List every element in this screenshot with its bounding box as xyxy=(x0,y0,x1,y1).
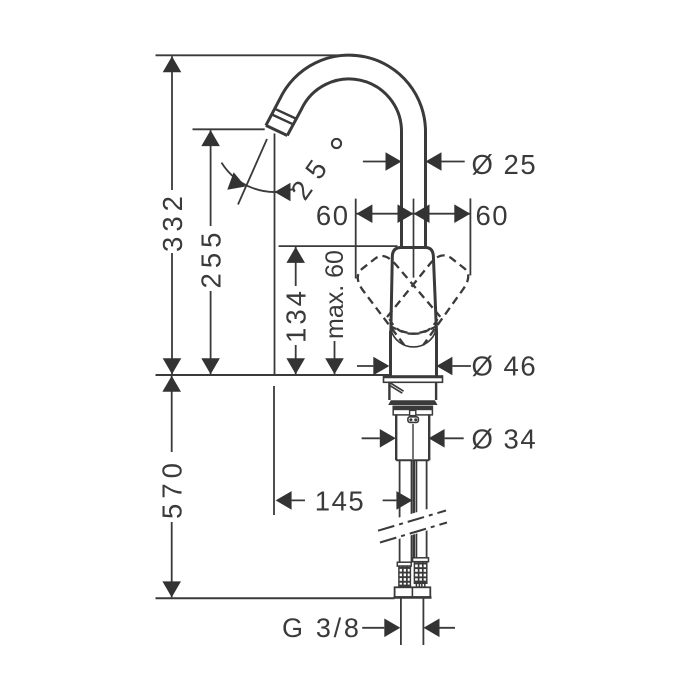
hose lines upper+lower xyxy=(400,460,427,562)
aerator band line 1 xyxy=(275,109,297,119)
arrow G38 right xyxy=(424,619,440,638)
arrow d25 right xyxy=(426,152,442,171)
svg-text:255: 255 xyxy=(195,228,226,289)
dim line 145 xyxy=(292,499,397,501)
flange top heavy edge xyxy=(384,376,443,378)
spout outlet tip face xyxy=(266,125,287,135)
shank right edge xyxy=(428,414,430,460)
spout inner arc xyxy=(287,79,401,136)
extension line top (332) xyxy=(156,54,353,56)
tick 60 left xyxy=(355,199,357,279)
svg-text:60: 60 xyxy=(316,200,350,231)
svg-text:25: 25 xyxy=(284,146,338,205)
handle dashed tilted left xyxy=(351,249,440,345)
arrow max60 bottom xyxy=(325,358,344,374)
svg-text:332: 332 xyxy=(157,191,188,252)
arrow d46 left xyxy=(373,357,389,376)
tick 60 right xyxy=(469,198,471,275)
arrow 134 top xyxy=(286,247,305,263)
25deg vertical reference line xyxy=(274,134,276,376)
fitting base divider xyxy=(411,587,413,597)
svg-text:570: 570 xyxy=(156,458,187,519)
arrow 60 center right xyxy=(414,204,430,223)
handle ball bottom arc xyxy=(391,330,436,347)
arrow 134 bottom xyxy=(286,358,305,374)
25deg angle arc xyxy=(222,163,294,192)
arrow 60 left outer xyxy=(356,204,372,223)
dim line max60 xyxy=(334,341,336,374)
extension line handle top xyxy=(279,245,398,247)
shank bottom edge xyxy=(396,459,429,461)
extension line deck xyxy=(156,374,390,376)
arrow 570 top xyxy=(162,376,181,392)
faucet centerline xyxy=(413,199,415,278)
dim line 134 xyxy=(295,247,297,374)
dim line 570 xyxy=(171,376,173,598)
dashed ball bottom left-tilt xyxy=(390,319,437,334)
arrow d46 right xyxy=(436,357,452,376)
svg-text:145: 145 xyxy=(315,485,365,516)
dim line d34 xyxy=(362,437,464,439)
svg-text:Ø 25: Ø 25 xyxy=(472,149,538,180)
arrow d25 left xyxy=(386,152,402,171)
base gasket dark band xyxy=(388,400,437,405)
dim line 255 xyxy=(210,130,212,374)
aerator band line 2 xyxy=(272,115,294,125)
right hose fitting xyxy=(413,558,429,587)
body left edge xyxy=(389,331,392,376)
degree circle of 25deg label xyxy=(332,139,341,148)
G3/8 tail right xyxy=(422,599,424,646)
dim line 60-60 xyxy=(356,213,470,215)
handle dashed tilted right xyxy=(387,249,476,345)
break line lower xyxy=(380,523,447,543)
left hose fitting xyxy=(397,562,411,587)
riser tube left edge xyxy=(400,131,403,248)
arrow 60 center left xyxy=(398,204,414,223)
arrow 60 right outer xyxy=(454,204,470,223)
dashed ball bottom right-tilt xyxy=(391,319,438,334)
flange xyxy=(384,376,443,382)
arrow d34 right xyxy=(429,429,445,448)
body right edge xyxy=(435,331,438,376)
arrow 145 right xyxy=(396,491,412,510)
break line upper xyxy=(378,511,446,531)
arrow 145 left xyxy=(276,491,292,510)
arrow 25deg at vertical xyxy=(275,183,291,202)
clamp dot right xyxy=(414,418,417,421)
arrow 332 top xyxy=(163,56,182,72)
arrowheads xyxy=(162,56,470,637)
svg-text:134: 134 xyxy=(280,288,311,343)
mounting ring xyxy=(393,406,432,415)
arrow 570 bottom xyxy=(162,581,181,597)
lower body left xyxy=(388,382,390,400)
dim line d46 xyxy=(357,365,471,367)
slash mark xyxy=(389,383,404,394)
break white band xyxy=(372,502,450,547)
svg-text:G 3/8: G 3/8 xyxy=(282,613,362,643)
handle solid outline xyxy=(391,248,437,335)
ring center notch xyxy=(410,410,416,415)
G3/8 tail left xyxy=(400,599,402,646)
fitting base block xyxy=(395,587,431,597)
extension line outlet level (255) xyxy=(193,128,265,130)
shank centerline xyxy=(412,424,414,459)
spout outer arc xyxy=(266,55,426,131)
dim line 332 xyxy=(171,56,173,374)
shank left edge xyxy=(395,414,397,460)
clamp dot left xyxy=(409,418,412,421)
dim line G38 xyxy=(362,627,455,629)
mounting ring dark top xyxy=(393,406,432,410)
dim line d25 xyxy=(363,161,465,163)
arrow G38 left xyxy=(384,619,400,638)
fitting base bottom heavy edge xyxy=(394,596,432,599)
lower body right xyxy=(435,382,437,400)
25deg diagonal axis line xyxy=(238,139,267,205)
arrow 332 bottom xyxy=(163,358,182,374)
arrow d34 left xyxy=(380,429,396,448)
clamp piece xyxy=(408,417,419,423)
arrow 255 bottom xyxy=(201,358,220,374)
svg-text:60: 60 xyxy=(476,200,510,231)
145 extension line xyxy=(273,386,275,515)
svg-text:Ø 34: Ø 34 xyxy=(472,423,538,454)
riser tube right edge xyxy=(424,131,427,248)
extension line bottom (570) xyxy=(156,597,395,599)
arrow 255 top xyxy=(201,130,220,146)
svg-text:Ø 46: Ø 46 xyxy=(472,351,538,382)
svg-text:max. 60: max. 60 xyxy=(321,250,349,339)
arrow 25deg at diagonal xyxy=(227,172,248,195)
